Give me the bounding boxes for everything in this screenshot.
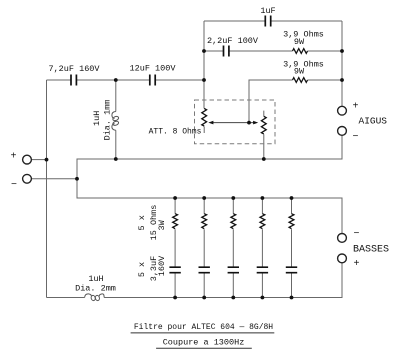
title underline 1	[131, 332, 275, 334]
svg-text:2,2uF 100V: 2,2uF 100V	[207, 36, 259, 46]
node pot right bottom	[262, 157, 266, 161]
wire input minus	[31, 178, 77, 180]
svg-text:+: +	[352, 102, 358, 113]
wire column 1	[174, 198, 176, 298]
svg-text:+: +	[10, 152, 16, 163]
node x342/y51	[340, 49, 344, 53]
svg-text:−: −	[352, 132, 358, 143]
potentiometer right (ATT)	[261, 116, 266, 134]
svg-text:5 x: 5 x	[137, 215, 147, 230]
wire left pot stub	[203, 126, 205, 133]
wire column 5	[291, 198, 293, 298]
wire column 2	[203, 198, 205, 298]
resistor bank 5x 15 Ohms 3W	[173, 214, 294, 229]
node x342/y80	[340, 78, 344, 82]
attenuator dashed box	[195, 100, 276, 144]
node input plus tap	[45, 158, 49, 162]
svg-text:1uF: 1uF	[260, 6, 275, 16]
node input minus tap	[75, 177, 79, 181]
wire AIGUS minus return	[77, 135, 342, 233]
terminal AIGUS minus	[338, 126, 347, 135]
title underline 2	[156, 347, 252, 349]
capacitor C1 7,2uF 160V	[71, 75, 76, 86]
svg-text:5 x: 5 x	[137, 262, 147, 277]
nodes resistor bank top	[173, 196, 177, 200]
wire BASSES plus to bottom bus	[47, 263, 343, 298]
wire top y=21	[204, 20, 342, 22]
wire top-left horizontal y=80	[47, 79, 205, 81]
wire left vertical bus	[46, 80, 48, 298]
svg-text:Dia. 2mm: Dia. 2mm	[75, 284, 116, 294]
wiper link with arrows	[208, 121, 258, 125]
node 12uF/L1 top	[114, 78, 118, 82]
svg-text:12uF 100V: 12uF 100V	[130, 64, 177, 74]
svg-text:Filtre pour ALTEC 604 — 8G/8H: Filtre pour ALTEC 604 — 8G/8H	[134, 323, 273, 332]
terminal BASSES plus	[338, 254, 347, 263]
svg-text:7,2uF 160V: 7,2uF 160V	[48, 64, 100, 74]
nodes capacitor bank bottom	[173, 296, 177, 300]
svg-text:Coupure a 1300Hz: Coupure a 1300Hz	[163, 338, 245, 348]
terminal AIGUS plus	[338, 106, 347, 115]
wire inductor branch x=115.8	[115, 80, 117, 159]
wire column 3	[232, 198, 234, 298]
svg-text:ATT. 8 Ohms: ATT. 8 Ohms	[149, 128, 202, 137]
terminal input minus	[23, 174, 32, 183]
svg-text:AIGUS: AIGUS	[359, 116, 388, 127]
capacitor C4 1uF	[265, 16, 270, 27]
wire right vertical x=342 top	[341, 21, 343, 106]
capacitor C2 12uF 100V	[150, 75, 155, 86]
svg-text:1uH: 1uH	[88, 274, 103, 284]
svg-text:Dia. 1mm: Dia. 1mm	[102, 100, 112, 141]
inductor L2 1uH Dia.2mm	[85, 294, 105, 301]
svg-text:3W: 3W	[157, 219, 167, 230]
terminal BASSES minus	[338, 234, 347, 243]
svg-text:160V: 160V	[157, 255, 167, 276]
node x204/y80	[202, 78, 206, 82]
node wiper	[247, 121, 251, 125]
wire right pot stubs	[263, 111, 265, 159]
node x204/y51	[202, 49, 206, 53]
wire y=80 right branch with drop to wiper	[249, 80, 342, 123]
resistor 3,9 Ohms 9W lower	[293, 78, 308, 83]
svg-text:−: −	[11, 180, 17, 191]
svg-text:−: −	[353, 229, 359, 240]
svg-text:9W: 9W	[294, 67, 305, 77]
capacitor C3 2,2uF 100V	[224, 46, 229, 57]
svg-text:1uH: 1uH	[92, 111, 102, 126]
wire y=51 branch	[204, 50, 342, 52]
resistor 3,9 Ohms 9W upper	[293, 49, 308, 54]
wire mid vertical x=204	[203, 21, 205, 108]
svg-text:BASSES: BASSES	[353, 245, 389, 256]
wire column 4	[261, 198, 263, 298]
inductor L1 1uH Dia.1mm	[112, 112, 119, 131]
wire input plus	[31, 159, 46, 161]
potentiometer left (ATT)	[202, 108, 207, 126]
svg-text:9W: 9W	[294, 37, 305, 47]
capacitor bank 5x 3,3uF 160V	[169, 267, 297, 273]
node L1 bottom	[114, 157, 118, 161]
svg-text:+: +	[353, 259, 359, 270]
terminal input plus	[23, 155, 32, 164]
